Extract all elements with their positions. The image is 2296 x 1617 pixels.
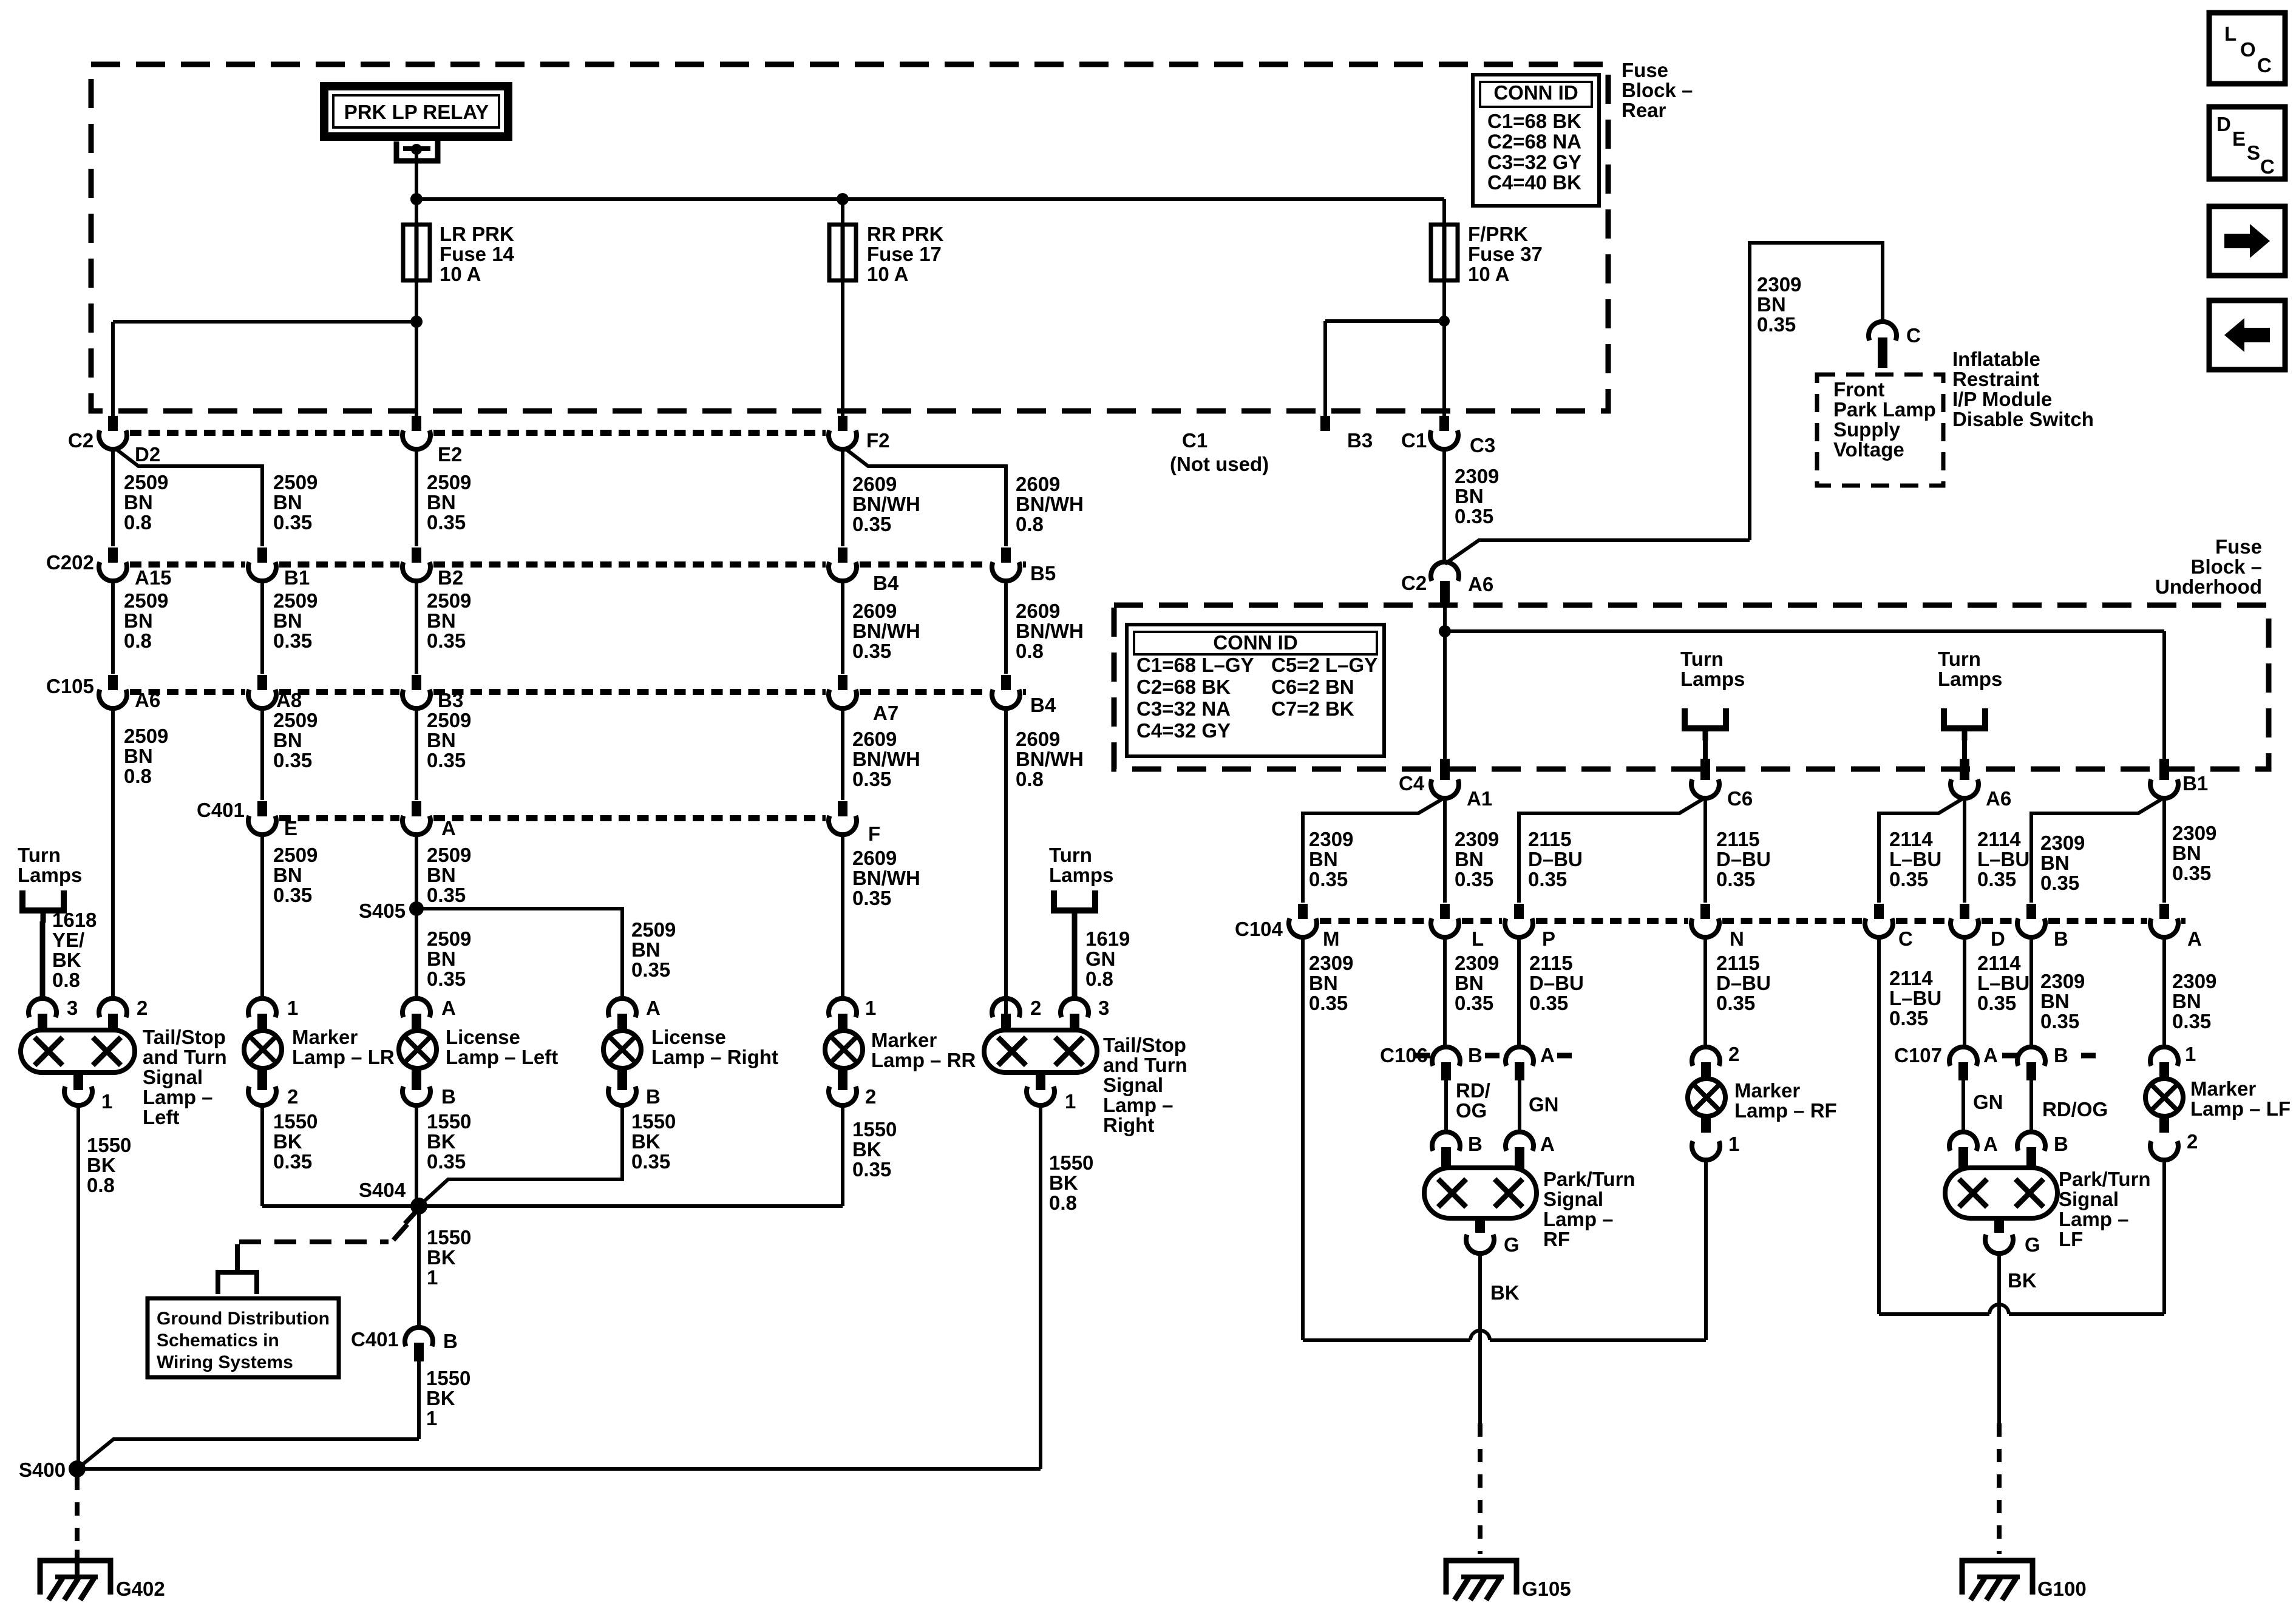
svg-text:Wiring Systems: Wiring Systems: [157, 1352, 293, 1372]
svg-text:BN: BN: [1309, 972, 1338, 994]
svg-text:0.35: 0.35: [1455, 868, 1493, 890]
svg-text:BN: BN: [631, 938, 661, 961]
svg-text:A6: A6: [135, 689, 160, 711]
svg-text:Fuse: Fuse: [1622, 59, 1668, 81]
svg-text:GN: GN: [1973, 1091, 2003, 1113]
svg-text:BN/WH: BN/WH: [852, 493, 920, 515]
svg-text:Lamp – LF: Lamp – LF: [2190, 1097, 2291, 1120]
svg-text:B4: B4: [1030, 694, 1056, 716]
svg-text:C6: C6: [1727, 787, 1753, 810]
svg-text:BN/WH: BN/WH: [1016, 748, 1084, 770]
svg-text:2609: 2609: [852, 600, 897, 622]
svg-text:C107: C107: [1894, 1044, 1942, 1066]
svg-text:0.35: 0.35: [1757, 313, 1796, 336]
svg-text:Lamps: Lamps: [1938, 668, 2002, 690]
svg-text:0.35: 0.35: [852, 768, 891, 790]
svg-text:Signal: Signal: [1543, 1188, 1603, 1210]
svg-text:Turn: Turn: [1680, 648, 1724, 670]
svg-text:Park/Turn: Park/Turn: [2059, 1168, 2151, 1190]
svg-text:Block –: Block –: [2191, 555, 2262, 578]
svg-text:0.35: 0.35: [1716, 868, 1755, 890]
svg-text:L–BU: L–BU: [1977, 848, 2029, 870]
svg-text:A: A: [646, 997, 661, 1019]
svg-text:Ground Distribution: Ground Distribution: [157, 1309, 330, 1329]
svg-text:Voltage: Voltage: [1833, 438, 1904, 461]
svg-text:Block –: Block –: [1622, 79, 1693, 101]
svg-text:A: A: [1983, 1133, 1998, 1155]
svg-text:0.35: 0.35: [1977, 992, 2016, 1014]
svg-text:C6=2 BN: C6=2 BN: [1271, 676, 1354, 698]
svg-text:Lamp – RR: Lamp – RR: [871, 1049, 976, 1071]
svg-text:D–BU: D–BU: [1529, 972, 1584, 994]
svg-text:D–BU: D–BU: [1716, 972, 1771, 994]
svg-text:C5=2 L–GY: C5=2 L–GY: [1271, 654, 1377, 676]
svg-text:2: 2: [1030, 997, 1041, 1019]
svg-text:0.35: 0.35: [1977, 868, 2016, 890]
svg-text:D–BU: D–BU: [1528, 848, 1583, 870]
svg-text:B: B: [2054, 1044, 2068, 1066]
svg-text:2115: 2115: [1528, 828, 1572, 850]
svg-text:L: L: [1472, 927, 1484, 950]
svg-text:Fuse 17: Fuse 17: [867, 243, 942, 265]
svg-text:1: 1: [287, 997, 298, 1019]
svg-text:C: C: [2257, 54, 2272, 76]
svg-text:0.8: 0.8: [124, 765, 152, 787]
svg-text:2115: 2115: [1529, 952, 1573, 974]
svg-text:0.35: 0.35: [1528, 868, 1567, 890]
svg-text:Tail/Stop: Tail/Stop: [143, 1026, 226, 1048]
svg-text:(Not used): (Not used): [1170, 453, 1269, 475]
svg-text:and Turn: and Turn: [143, 1046, 227, 1068]
svg-text:BN: BN: [2040, 990, 2070, 1012]
svg-text:1: 1: [426, 1407, 437, 1429]
svg-text:B1: B1: [284, 566, 310, 589]
svg-text:BN: BN: [1455, 848, 1484, 870]
svg-text:C4=40 BK: C4=40 BK: [1487, 171, 1581, 194]
svg-text:10 A: 10 A: [867, 263, 908, 285]
svg-text:L–BU: L–BU: [1889, 848, 1941, 870]
svg-text:Marker: Marker: [292, 1026, 358, 1048]
svg-text:L–BU: L–BU: [1977, 972, 2029, 994]
svg-text:RF: RF: [1543, 1228, 1570, 1250]
svg-text:S400: S400: [19, 1459, 66, 1481]
svg-text:2309: 2309: [2172, 970, 2216, 992]
svg-text:A: A: [1983, 1044, 1998, 1066]
svg-text:2114: 2114: [1889, 967, 1933, 989]
svg-text:2509: 2509: [631, 918, 676, 941]
svg-text:0.35: 0.35: [2040, 1010, 2079, 1032]
svg-text:2509: 2509: [273, 844, 318, 866]
svg-text:Signal: Signal: [143, 1066, 203, 1088]
svg-text:2509: 2509: [427, 589, 471, 612]
svg-text:2115: 2115: [1716, 828, 1760, 850]
svg-text:BK: BK: [52, 949, 81, 971]
svg-text:L–BU: L–BU: [1889, 987, 1941, 1009]
svg-text:2309: 2309: [1455, 465, 1499, 487]
svg-text:C2=68 NA: C2=68 NA: [1487, 131, 1581, 153]
svg-text:C2: C2: [1401, 572, 1427, 594]
svg-text:B: B: [1468, 1044, 1483, 1066]
svg-text:Supply: Supply: [1833, 418, 1901, 441]
svg-text:BK: BK: [87, 1154, 116, 1176]
svg-text:0.35: 0.35: [273, 511, 312, 534]
svg-text:0.35: 0.35: [427, 968, 466, 990]
svg-text:Marker: Marker: [871, 1029, 937, 1051]
svg-text:0.35: 0.35: [1889, 868, 1928, 890]
svg-text:A6: A6: [1986, 787, 2011, 810]
svg-text:BN: BN: [427, 609, 456, 632]
svg-text:2509: 2509: [427, 844, 471, 866]
svg-text:BK: BK: [1490, 1281, 1520, 1304]
svg-text:L: L: [2224, 22, 2237, 45]
svg-text:BN: BN: [427, 864, 456, 886]
svg-text:0.35: 0.35: [427, 749, 466, 771]
svg-text:2509: 2509: [273, 589, 318, 612]
svg-text:Park Lamp: Park Lamp: [1833, 398, 1936, 421]
svg-text:Fuse: Fuse: [2215, 535, 2262, 558]
svg-text:LF: LF: [2059, 1228, 2083, 1250]
svg-text:2309: 2309: [1757, 273, 1801, 296]
svg-text:B: B: [2054, 1133, 2068, 1155]
svg-text:BN: BN: [273, 864, 302, 886]
svg-text:D2: D2: [135, 443, 160, 466]
svg-text:Signal: Signal: [1103, 1074, 1163, 1096]
svg-text:D–BU: D–BU: [1716, 848, 1771, 870]
svg-text:BN: BN: [2040, 852, 2070, 874]
svg-text:B3: B3: [438, 689, 463, 711]
svg-text:OG: OG: [1456, 1099, 1487, 1122]
svg-text:2309: 2309: [1309, 828, 1353, 850]
svg-text:Signal: Signal: [2059, 1188, 2119, 1210]
svg-text:0.8: 0.8: [1085, 968, 1113, 990]
svg-text:2114: 2114: [1889, 828, 1933, 850]
svg-text:C7=2 BK: C7=2 BK: [1271, 697, 1354, 720]
svg-text:Lamp – Right: Lamp – Right: [651, 1046, 778, 1068]
svg-text:C105: C105: [46, 675, 94, 697]
svg-text:0.35: 0.35: [427, 511, 466, 534]
svg-text:B: B: [2054, 927, 2068, 950]
svg-text:A: A: [1540, 1044, 1555, 1066]
svg-text:3: 3: [1098, 997, 1109, 1019]
svg-text:C104: C104: [1235, 918, 1283, 940]
svg-text:G: G: [1504, 1233, 1520, 1256]
svg-text:E: E: [284, 817, 297, 839]
svg-text:1550: 1550: [1049, 1151, 1093, 1174]
svg-text:2509: 2509: [427, 709, 471, 731]
svg-text:BN: BN: [1309, 848, 1338, 870]
svg-text:0.35: 0.35: [427, 884, 466, 906]
svg-text:1: 1: [865, 997, 876, 1019]
svg-text:GN: GN: [1085, 947, 1116, 970]
svg-text:C1: C1: [1182, 429, 1207, 452]
svg-text:BN/WH: BN/WH: [852, 867, 920, 889]
svg-text:2609: 2609: [852, 847, 897, 869]
svg-text:B3: B3: [1347, 429, 1373, 452]
svg-text:BN: BN: [273, 729, 302, 751]
svg-text:2509: 2509: [124, 589, 168, 612]
svg-text:BK: BK: [427, 1130, 456, 1153]
svg-text:C2=68 BK: C2=68 BK: [1136, 676, 1231, 698]
svg-text:S405: S405: [359, 900, 406, 922]
svg-text:License: License: [651, 1026, 726, 1048]
svg-text:0.8: 0.8: [1016, 768, 1044, 790]
svg-text:2309: 2309: [1455, 952, 1499, 974]
svg-text:Lamps: Lamps: [1680, 668, 1745, 690]
svg-text:2: 2: [2187, 1130, 2198, 1153]
svg-text:BN/WH: BN/WH: [852, 620, 920, 642]
svg-text:CONN ID: CONN ID: [1213, 631, 1297, 654]
svg-text:0.35: 0.35: [2172, 862, 2211, 884]
svg-text:F/PRK: F/PRK: [1468, 223, 1528, 245]
svg-text:BN: BN: [1455, 485, 1484, 507]
svg-text:BN/WH: BN/WH: [852, 748, 920, 770]
svg-text:C: C: [1906, 324, 1921, 347]
svg-text:0.35: 0.35: [1716, 992, 1755, 1014]
svg-text:License: License: [446, 1026, 520, 1048]
svg-text:A15: A15: [135, 566, 172, 589]
svg-text:1550: 1550: [631, 1110, 676, 1133]
svg-text:0.35: 0.35: [631, 958, 670, 981]
svg-text:1550: 1550: [427, 1110, 471, 1133]
svg-text:CONN ID: CONN ID: [1493, 81, 1578, 104]
svg-text:Turn: Turn: [1049, 844, 1092, 866]
svg-text:2309: 2309: [1309, 952, 1353, 974]
svg-text:A7: A7: [873, 702, 898, 724]
svg-text:0.8: 0.8: [124, 511, 152, 534]
svg-text:B2: B2: [438, 566, 463, 589]
svg-text:Lamp –: Lamp –: [1103, 1094, 1173, 1116]
svg-text:Lamps: Lamps: [18, 864, 82, 886]
svg-text:Rear: Rear: [1622, 99, 1666, 121]
svg-text:C: C: [1898, 927, 1913, 950]
svg-text:2609: 2609: [852, 473, 897, 495]
svg-text:1: 1: [1728, 1133, 1739, 1155]
svg-text:0.8: 0.8: [1049, 1192, 1077, 1214]
svg-text:2509: 2509: [124, 725, 168, 747]
svg-text:BN: BN: [124, 745, 153, 767]
svg-text:and Turn: and Turn: [1103, 1054, 1187, 1076]
svg-text:RD/OG: RD/OG: [2042, 1098, 2108, 1120]
svg-text:0.8: 0.8: [124, 629, 152, 652]
svg-text:M: M: [1323, 927, 1340, 950]
svg-text:BN: BN: [273, 609, 302, 632]
svg-text:2509: 2509: [124, 471, 168, 493]
svg-text:C4: C4: [1399, 772, 1425, 795]
svg-text:0.35: 0.35: [1889, 1007, 1928, 1029]
svg-text:2609: 2609: [852, 728, 897, 750]
svg-text:BN: BN: [427, 729, 456, 751]
svg-text:A6: A6: [1468, 573, 1493, 595]
svg-text:Lamp –: Lamp –: [2059, 1208, 2129, 1230]
svg-text:C3=32 NA: C3=32 NA: [1136, 697, 1231, 720]
svg-text:BN: BN: [1455, 972, 1484, 994]
svg-text:1: 1: [1065, 1090, 1076, 1113]
svg-text:C3: C3: [1470, 434, 1495, 456]
svg-text:10 A: 10 A: [440, 263, 481, 285]
svg-text:Marker: Marker: [2190, 1077, 2256, 1100]
svg-text:2609: 2609: [1016, 473, 1060, 495]
svg-text:0.35: 0.35: [2040, 872, 2079, 894]
svg-text:D: D: [2216, 113, 2231, 135]
svg-text:2: 2: [287, 1085, 298, 1108]
svg-text:A: A: [441, 997, 456, 1019]
svg-text:0.35: 0.35: [273, 884, 312, 906]
svg-text:1550: 1550: [852, 1118, 897, 1141]
svg-text:0.35: 0.35: [2172, 1010, 2211, 1032]
svg-text:F: F: [868, 822, 880, 845]
svg-text:C3=32 GY: C3=32 GY: [1487, 151, 1581, 173]
svg-text:0.35: 0.35: [1309, 868, 1348, 890]
svg-text:RR PRK: RR PRK: [867, 223, 944, 245]
svg-text:2509: 2509: [273, 471, 318, 493]
svg-text:C202: C202: [46, 551, 94, 574]
svg-text:1: 1: [101, 1090, 112, 1113]
svg-text:BK: BK: [1049, 1171, 1078, 1194]
svg-text:LR PRK: LR PRK: [440, 223, 514, 245]
svg-text:Marker: Marker: [1734, 1079, 1800, 1102]
svg-text:2: 2: [137, 997, 148, 1019]
svg-text:BN: BN: [124, 609, 153, 632]
svg-text:D: D: [1991, 927, 2005, 950]
svg-text:C4=32 GY: C4=32 GY: [1136, 719, 1231, 742]
svg-text:Right: Right: [1103, 1114, 1154, 1136]
svg-text:2: 2: [865, 1085, 876, 1108]
svg-text:A1: A1: [1467, 787, 1492, 810]
svg-text:Lamp – RF: Lamp – RF: [1734, 1099, 1837, 1122]
svg-text:0.35: 0.35: [273, 749, 312, 771]
svg-text:Disable Switch: Disable Switch: [1952, 408, 2094, 430]
svg-text:0.35: 0.35: [631, 1150, 670, 1173]
svg-text:3: 3: [67, 997, 78, 1019]
svg-text:C1=68 BK: C1=68 BK: [1487, 110, 1581, 132]
svg-text:2509: 2509: [273, 709, 318, 731]
svg-text:1550: 1550: [87, 1134, 131, 1156]
svg-text:0.8: 0.8: [52, 969, 80, 991]
svg-text:Lamp – LR: Lamp – LR: [292, 1046, 395, 1068]
svg-text:Lamp –: Lamp –: [143, 1086, 213, 1108]
svg-text:0.35: 0.35: [427, 629, 466, 652]
svg-text:2309: 2309: [2172, 822, 2216, 844]
svg-text:C1=68 L–GY: C1=68 L–GY: [1136, 654, 1254, 676]
svg-text:0.8: 0.8: [87, 1174, 115, 1196]
svg-text:BN: BN: [427, 947, 456, 970]
svg-text:Park/Turn: Park/Turn: [1543, 1168, 1635, 1190]
svg-text:Restraint: Restraint: [1952, 368, 2039, 390]
svg-text:BK: BK: [273, 1130, 302, 1153]
svg-text:Front: Front: [1833, 378, 1884, 401]
svg-text:A: A: [2187, 927, 2202, 950]
svg-text:C401: C401: [351, 1328, 399, 1351]
svg-text:B: B: [1468, 1133, 1483, 1155]
svg-text:2609: 2609: [1016, 600, 1060, 622]
svg-text:0.8: 0.8: [1016, 640, 1044, 662]
svg-text:0.8: 0.8: [1016, 513, 1044, 535]
svg-text:E2: E2: [438, 443, 462, 466]
svg-text:BN/WH: BN/WH: [1016, 620, 1084, 642]
svg-text:Lamp – Left: Lamp – Left: [446, 1046, 558, 1068]
svg-text:BN: BN: [1757, 293, 1786, 316]
svg-text:O: O: [2240, 38, 2256, 61]
svg-text:Underhood: Underhood: [2155, 575, 2262, 598]
svg-text:2309: 2309: [1455, 828, 1499, 850]
svg-text:1: 1: [2185, 1043, 2196, 1065]
svg-text:1550: 1550: [273, 1110, 318, 1133]
svg-text:BK: BK: [427, 1246, 456, 1269]
svg-text:B1: B1: [2182, 772, 2208, 795]
svg-text:0.35: 0.35: [273, 629, 312, 652]
svg-text:Turn: Turn: [18, 844, 61, 866]
svg-text:A8: A8: [276, 689, 302, 711]
svg-text:0.35: 0.35: [1309, 992, 1348, 1014]
svg-text:2309: 2309: [2040, 970, 2085, 992]
svg-text:C: C: [2260, 155, 2275, 178]
svg-text:BK: BK: [2008, 1269, 2037, 1292]
svg-text:BK: BK: [631, 1130, 661, 1153]
svg-text:0.35: 0.35: [1529, 992, 1568, 1014]
svg-text:BN: BN: [2172, 842, 2201, 864]
svg-text:B: B: [441, 1085, 456, 1108]
svg-text:2114: 2114: [1977, 952, 2021, 974]
svg-text:Fuse 37: Fuse 37: [1468, 243, 1543, 265]
svg-text:GN: GN: [1529, 1093, 1559, 1116]
svg-text:1550: 1550: [427, 1226, 471, 1249]
svg-text:Schematics in: Schematics in: [157, 1331, 279, 1351]
svg-text:2509: 2509: [427, 927, 471, 950]
svg-text:2114: 2114: [1977, 828, 2021, 850]
svg-text:PRK LP RELAY: PRK LP RELAY: [344, 101, 489, 123]
svg-text:G402: G402: [116, 1578, 165, 1600]
svg-text:0.35: 0.35: [852, 887, 891, 909]
svg-text:BN: BN: [124, 491, 153, 514]
svg-text:0.35: 0.35: [852, 513, 891, 535]
svg-text:2309: 2309: [2040, 832, 2085, 854]
svg-text:1550: 1550: [426, 1367, 470, 1389]
svg-text:P: P: [1542, 927, 1555, 950]
svg-text:B: B: [646, 1085, 661, 1108]
svg-text:Turn: Turn: [1938, 648, 1981, 670]
svg-text:BN/WH: BN/WH: [1016, 493, 1084, 515]
svg-text:BN: BN: [2172, 990, 2201, 1012]
svg-text:A: A: [441, 817, 456, 839]
svg-text:N: N: [1730, 927, 1744, 950]
svg-text:Fuse 14: Fuse 14: [440, 243, 515, 265]
svg-text:G: G: [2025, 1233, 2040, 1256]
svg-text:Lamps: Lamps: [1049, 864, 1113, 886]
svg-text:Inflatable: Inflatable: [1952, 348, 2040, 370]
svg-text:B4: B4: [873, 572, 899, 594]
svg-text:B5: B5: [1030, 562, 1056, 585]
svg-text:G105: G105: [1522, 1578, 1571, 1600]
svg-text:2509: 2509: [427, 471, 471, 493]
svg-text:YE/: YE/: [52, 929, 84, 951]
svg-text:S: S: [2247, 141, 2260, 164]
svg-text:A: A: [1540, 1133, 1555, 1155]
svg-text:0.35: 0.35: [1455, 992, 1493, 1014]
svg-text:RD/: RD/: [1456, 1079, 1490, 1102]
svg-text:BK: BK: [426, 1387, 455, 1409]
svg-text:BK: BK: [852, 1138, 881, 1161]
svg-text:C2: C2: [68, 429, 93, 452]
svg-text:Left: Left: [143, 1106, 180, 1128]
svg-text:0.35: 0.35: [1455, 505, 1493, 527]
svg-text:1618: 1618: [52, 909, 97, 931]
svg-text:C401: C401: [197, 799, 245, 821]
svg-text:Tail/Stop: Tail/Stop: [1103, 1034, 1186, 1056]
svg-text:C1: C1: [1401, 429, 1427, 452]
svg-text:BN: BN: [427, 491, 456, 514]
svg-text:1: 1: [427, 1266, 438, 1289]
svg-text:2609: 2609: [1016, 728, 1060, 750]
